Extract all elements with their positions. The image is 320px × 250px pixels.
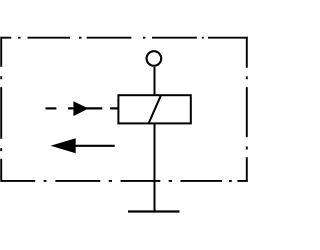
wire: circle to coil — [154, 67, 156, 95]
enclosure border left (dash-dot line) — [0, 37, 2, 182]
enclosure border right (dash-dot line) — [246, 37, 248, 182]
output arrowhead pointing left — [51, 138, 76, 153]
pilot circle (indicator) — [147, 51, 162, 66]
diagonal slash inside coil — [149, 95, 161, 123]
enclosure border bottom (dash-dot line) — [1, 180, 248, 182]
dashed pilot line dash 1 — [46, 107, 57, 109]
wire: coil to ground — [154, 123, 156, 211]
dashed pilot line segment with arrowhead — [68, 107, 102, 109]
enclosure border top (dash-dot line) — [1, 37, 248, 39]
solenoid coil rectangle — [118, 95, 190, 123]
arrowhead pointing right — [73, 101, 88, 116]
dashed pilot line dash 3 — [110, 107, 118, 109]
ground bar — [128, 210, 180, 212]
output arrow line (pointing left) — [73, 145, 115, 147]
